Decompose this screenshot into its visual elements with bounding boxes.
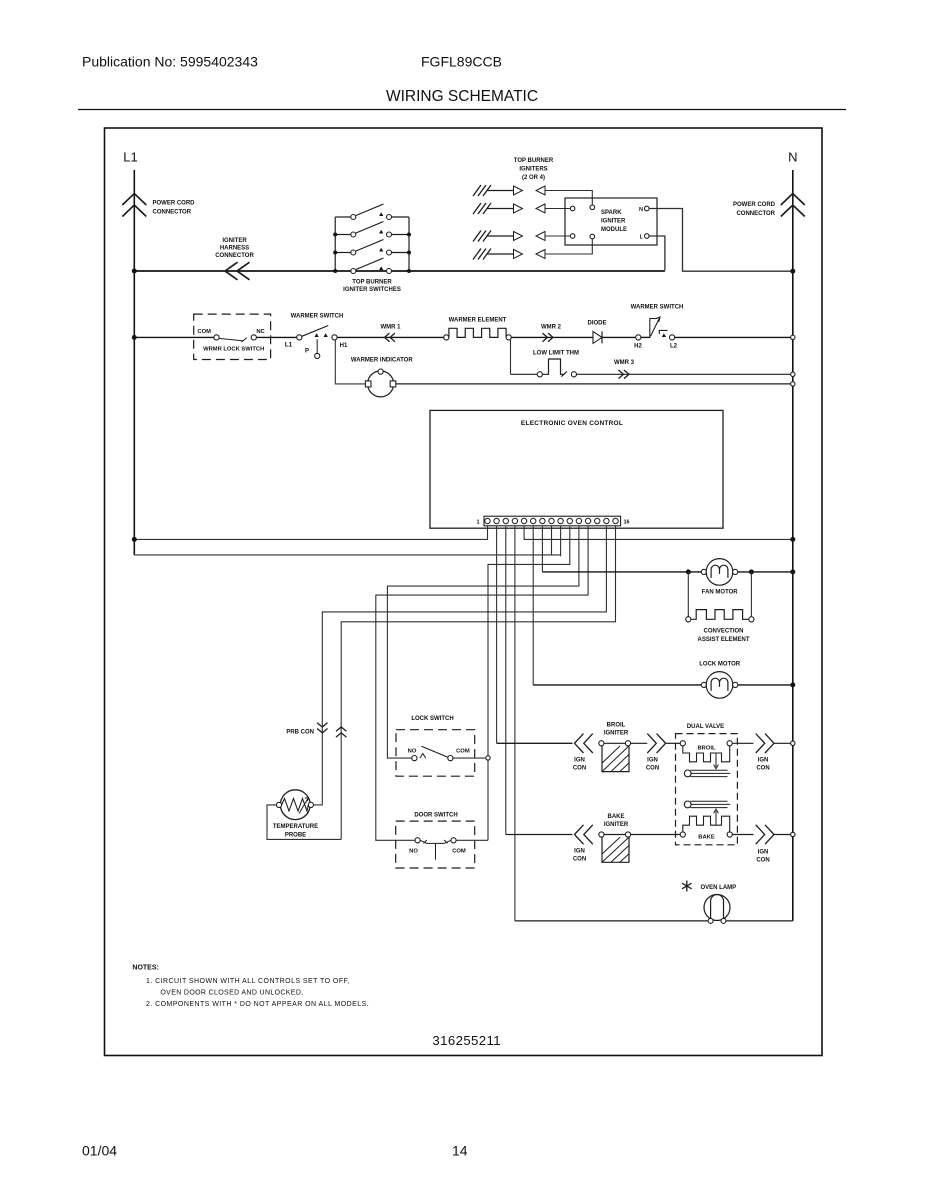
connector WMR 3 chevrons [619, 370, 630, 379]
H2 terminal [636, 335, 641, 340]
svg-text:Publication No: 5995402343: Publication No: 5995402343 [82, 54, 258, 70]
lock switch COM terminal [448, 756, 453, 761]
top burner igniter 3 spark gap arrows [487, 235, 514, 237]
svg-text:IGN: IGN [574, 758, 585, 764]
EOC pin 5 [521, 518, 526, 523]
wire spark module L to top bus [649, 236, 665, 270]
power cord connector (N) chevrons [781, 194, 805, 217]
EOC pin 12 [585, 518, 590, 523]
svg-text:IGNITER: IGNITER [604, 822, 629, 828]
wire drop from warmer element junction [510, 338, 512, 374]
wire igniter row3 to module left pin [545, 235, 570, 237]
svg-text:COM: COM [456, 749, 470, 755]
top burner igniter switches left rail [334, 217, 336, 271]
svg-text:OVEN LAMP: OVEN LAMP [701, 885, 737, 891]
svg-text:1. CIRCUIT SHOWN WITH ALL CON: 1. CIRCUIT SHOWN WITH ALL CONTROLS SET T… [146, 978, 350, 985]
junction dot igniter switch rail [333, 269, 337, 273]
component marker asterisk [682, 881, 692, 892]
warmer lock switch COM terminal [214, 335, 219, 340]
broil row IGN CON chevrons right [756, 734, 774, 753]
svg-text:01/04: 01/04 [82, 1143, 117, 1159]
warmer switch contact triangle P side [315, 333, 319, 337]
svg-text:L: L [640, 235, 644, 241]
junction dot fan row right branch [749, 569, 754, 574]
EOC pin 10 [567, 518, 572, 523]
wire oven lamp to neutral [726, 920, 793, 922]
svg-text:1: 1 [476, 520, 479, 526]
EOC pin 1 [485, 518, 490, 523]
svg-text:WRMR LOCK SWITCH: WRMR LOCK SWITCH [203, 347, 264, 353]
junction dot L1 x pin1 wire [132, 537, 137, 542]
bake row IGN CON chevrons left [575, 825, 593, 844]
wire spark module N to neutral bus [649, 209, 793, 272]
wire igniter row2 to module left pin [545, 208, 570, 210]
wire between bake igniter terminals [604, 834, 625, 836]
spark module pin N [645, 206, 650, 211]
wire fan motor to neutral [738, 571, 793, 573]
dual valve broil solenoid coil [683, 746, 730, 762]
EOC pin 2 [494, 518, 499, 523]
wire warmer row from L1 [134, 336, 214, 338]
bake igniter left terminal [599, 832, 604, 837]
wire EOC pin15 to probe return [341, 526, 615, 840]
broil igniter right terminal [625, 741, 630, 746]
svg-text:N: N [788, 150, 797, 165]
junction dot neutral bus at N feeder [790, 269, 795, 274]
svg-text:HARNESS: HARNESS [220, 246, 249, 252]
spark module pin inner lower [590, 234, 595, 239]
top burner igniter 4 electrode hash [473, 249, 491, 260]
top burner igniter 4 spark gap arrows [487, 253, 514, 255]
broil igniter body (hatched) [602, 746, 629, 772]
broil row IGN CON chevrons left [575, 734, 593, 753]
wire fan motor row [542, 571, 701, 573]
wire EOC pin9 stub [560, 526, 562, 557]
svg-text:WMR 2: WMR 2 [541, 325, 562, 331]
wire low limit row to neutral [577, 373, 791, 375]
wire lock motor row [533, 684, 701, 686]
EOC pin 9 [558, 518, 563, 523]
wire N vertical feeder [792, 170, 794, 921]
junction dot igniter switch rail [333, 251, 337, 255]
svg-text:BROIL: BROIL [697, 746, 715, 752]
wire igniter row1 to module inner pin [545, 191, 592, 205]
dual valve bake solenoid coil [683, 816, 730, 832]
wire L1 bottom to pin9 row [134, 554, 560, 556]
low limit thermostat body [542, 359, 567, 377]
connector WMR 2 chevrons [543, 333, 554, 342]
svg-text:WMR 1: WMR 1 [381, 325, 402, 331]
diode D1 [593, 331, 602, 343]
neutral connector circle at indicator row [791, 382, 795, 386]
svg-text:DOOR SWITCH: DOOR SWITCH [414, 813, 457, 819]
svg-text:BROIL: BROIL [607, 723, 626, 729]
svg-text:ELECTRONIC OVEN CONTROL: ELECTRONIC OVEN CONTROL [521, 420, 623, 427]
svg-text:DUAL VALVE: DUAL VALVE [687, 724, 724, 730]
junction dot igniter switch rail [407, 233, 411, 237]
warmer element right terminal [506, 335, 511, 340]
oven lamp bulb [704, 895, 730, 921]
EOC pin 3 [503, 518, 508, 523]
svg-text:ASSIST ELEMENT: ASSIST ELEMENT [697, 637, 749, 643]
fan motor left terminal [701, 569, 706, 574]
EOC pin 14 [604, 518, 609, 523]
spark module pin L [645, 234, 650, 239]
wire EOC pin7 to fan motor row [541, 526, 543, 572]
wire EOC pin3 to bake igniter row [505, 526, 507, 835]
probe connector chevrons up [336, 727, 346, 737]
top burner igniter 2 electrode hash [473, 203, 491, 214]
junction dot neutral x lock motor row [790, 682, 795, 687]
bake igniter body (hatched) [602, 837, 629, 862]
wire bake valve to neutral chevrons [732, 834, 753, 836]
igniter harness connector chevrons [225, 262, 250, 280]
svg-text:L2: L2 [670, 344, 678, 350]
svg-text:NC: NC [256, 329, 265, 335]
connector circle lock switch COM feed [486, 756, 490, 760]
schematic border frame [105, 128, 823, 1056]
svg-text:NOTES:: NOTES: [132, 965, 158, 972]
svg-text:P: P [305, 349, 309, 355]
warmer lock switch blade [219, 338, 247, 342]
svg-text:NO: NO [408, 749, 417, 755]
junction dot igniter switch rail [333, 233, 337, 237]
wire igniter row4 to module inner pin [545, 239, 592, 254]
junction dot igniter switch rail [407, 269, 411, 273]
spark igniter module box U1 [565, 198, 657, 245]
temperature probe right terminal [308, 802, 313, 807]
svg-text:CON: CON [573, 857, 586, 863]
neutral connector circle bake row [791, 832, 795, 836]
igniter switch row 3 [335, 252, 351, 254]
broil igniter left terminal [599, 741, 604, 746]
svg-text:WARMER SWITCH: WARMER SWITCH [291, 314, 344, 320]
neutral connector circle at low limit row [791, 372, 795, 376]
svg-text:BAKE: BAKE [698, 835, 715, 841]
svg-text:PROBE: PROBE [285, 833, 306, 839]
wire EOC pin8 stub [551, 526, 553, 555]
svg-text:H1: H1 [340, 343, 348, 349]
wire low limit row left [511, 373, 538, 375]
EOC pin 15 [613, 518, 618, 523]
wire EOC pin11 to lock switch NO [387, 526, 579, 758]
dual valve bake actuator arrow [714, 809, 719, 825]
oven lamp left terminal [708, 918, 713, 923]
wire bake row to neutral [774, 834, 791, 836]
door switch NO terminal [415, 838, 420, 843]
svg-text:IGNITER: IGNITER [601, 219, 626, 225]
svg-text:POWER CORD: POWER CORD [153, 201, 196, 207]
oven lamp filament [711, 895, 724, 919]
temperature probe thermistor zigzag [282, 799, 309, 812]
svg-text:N: N [639, 207, 643, 213]
low limit thermostat left terminal [537, 372, 542, 377]
wire top bus from L1 to spark module L [134, 270, 665, 272]
svg-text:POWER CORD: POWER CORD [733, 202, 776, 208]
warmer switch blade with arrow [302, 326, 329, 337]
svg-text:CON: CON [756, 766, 769, 772]
wire EOC pin14 to probe connector [314, 526, 607, 805]
dual valve broil pin right [727, 741, 732, 746]
svg-text:IGNITERS: IGNITERS [519, 167, 547, 173]
convection element right terminal [749, 617, 754, 622]
igniter switch row 2 [335, 234, 351, 236]
svg-text:MODULE: MODULE [601, 227, 627, 233]
wire EOC pin2 to broil igniter row [496, 526, 498, 744]
wire bake igniter to dual valve [631, 834, 681, 836]
wire broil row from pin2 [497, 742, 573, 744]
warmer lock switch NC terminal [251, 335, 256, 340]
wire warmer element to H2 [511, 336, 635, 338]
dual valve bake pin right [727, 832, 732, 837]
svg-text:(2 OR 4): (2 OR 4) [522, 175, 545, 181]
igniter switch row 1 [335, 216, 351, 218]
wire EOC pin4 to oven lamp row [514, 526, 516, 921]
svg-text:CONNECTOR: CONNECTOR [215, 253, 254, 259]
svg-text:CON: CON [573, 766, 586, 772]
wire between broil igniter terminals [604, 742, 625, 744]
wire to dual valve broil pin [666, 742, 681, 744]
svg-text:CON: CON [756, 858, 769, 864]
wire probe left loop [267, 805, 341, 840]
convection element left terminal [686, 617, 691, 622]
EOC pin 8 [549, 518, 554, 523]
svg-text:COM: COM [452, 849, 466, 855]
junction dot fan row left branch [686, 569, 691, 574]
wire lock switch COM to feed [453, 757, 486, 759]
junction dot igniter switch rail [407, 251, 411, 255]
temperature probe left terminal [276, 802, 281, 807]
wire EOC pin12 to door switch NO [376, 526, 588, 841]
svg-text:IGN: IGN [758, 758, 769, 764]
wire bake row from pin3 [506, 834, 573, 836]
top burner igniter 1 electrode hash [473, 185, 491, 196]
top burner igniter 1 spark gap arrows [487, 190, 514, 192]
door switch dashed box [396, 821, 475, 868]
svg-text:IGNITER: IGNITER [604, 731, 629, 737]
svg-text:SPARK: SPARK [601, 210, 622, 216]
junction dot L1 x top bus [132, 269, 137, 274]
svg-text:COM: COM [197, 329, 211, 335]
fan motor M1 [706, 559, 733, 586]
wire H2 to switch pivot [641, 336, 650, 338]
dual valve broil plunger [684, 770, 691, 777]
power cord connector (L1) chevrons [122, 194, 146, 217]
svg-text:16: 16 [624, 520, 630, 526]
EOC pin 6 [531, 518, 536, 523]
neutral connector circle at warmer row [791, 335, 795, 339]
svg-text:PRB CON: PRB CON [286, 730, 314, 736]
svg-text:WARMER SWITCH: WARMER SWITCH [631, 305, 684, 311]
neutral connector circle broil row [791, 741, 795, 745]
svg-text:LOW LIMIT THM: LOW LIMIT THM [533, 351, 579, 357]
wire L1 vertical feeder [133, 170, 135, 555]
svg-text:CONNECTOR: CONNECTOR [736, 211, 775, 217]
EOC pin 7 [540, 518, 545, 523]
svg-text:H2: H2 [634, 344, 642, 350]
lock motor left terminal [701, 682, 706, 687]
svg-text:LOCK SWITCH: LOCK SWITCH [411, 716, 453, 722]
title underline rule [78, 109, 846, 111]
svg-text:316255211: 316255211 [432, 1033, 501, 1048]
lock motor M2 [706, 672, 733, 699]
wire EOC pin6 to lock motor row [532, 526, 534, 685]
lock switch dashed box [396, 730, 475, 777]
broil row IGN CON chevrons mid [647, 734, 665, 753]
svg-text:TEMPERATURE: TEMPERATURE [273, 824, 318, 830]
wire EOC pin10 to door/lock switch common [488, 526, 570, 841]
wire convection branch left [687, 572, 689, 617]
svg-text:TOP BURNER: TOP BURNER [514, 158, 554, 164]
warmer element left terminal [444, 335, 449, 340]
svg-text:BAKE: BAKE [607, 814, 624, 820]
svg-text:L1: L1 [123, 150, 137, 165]
svg-text:14: 14 [452, 1143, 468, 1159]
junction dot neutral x pin5 wire [790, 537, 795, 542]
lock switch blade [422, 746, 448, 757]
svg-text:OVEN DOOR CLOSED AND UNLOCKED.: OVEN DOOR CLOSED AND UNLOCKED. [160, 990, 303, 997]
door switch COM terminal [451, 838, 456, 843]
connector WMR 1 chevrons [385, 333, 396, 342]
svg-text:FAN MOTOR: FAN MOTOR [702, 590, 739, 596]
svg-text:WMR 3: WMR 3 [614, 360, 635, 366]
electronic oven control box [430, 410, 723, 528]
top burner igniter 3 electrode hash [473, 231, 491, 242]
dual valve broil pin left [680, 741, 685, 746]
EOC pin 4 [512, 518, 517, 523]
svg-text:IGN: IGN [647, 758, 658, 764]
warmer switch contact triangle H1 side [324, 333, 328, 337]
wire EOC pin5 to neutral [524, 526, 793, 540]
svg-text:WARMER INDICATOR: WARMER INDICATOR [351, 358, 413, 364]
wire broil valve to neutral chevrons [732, 742, 753, 744]
warmer switch H1 terminal [332, 335, 337, 340]
svg-text:FGFL89CCB: FGFL89CCB [421, 54, 502, 70]
convection assist element resistor [691, 610, 749, 620]
fan motor right terminal [733, 569, 738, 574]
svg-text:CONVECTION: CONVECTION [703, 629, 743, 635]
EOC pin 11 [576, 518, 581, 523]
warmer switch right step and blade [650, 317, 668, 337]
EOC pin 13 [595, 518, 600, 523]
junction dot neutral x fan row [790, 569, 795, 574]
warmer switch P terminal stub [316, 339, 318, 353]
warmer lock switch dashed box [194, 314, 271, 359]
wire broil row to neutral [774, 742, 791, 744]
spark module pin left lower [570, 234, 575, 239]
top burner igniter switches right rail [408, 217, 410, 271]
spark module pin inner upper [590, 205, 595, 210]
EOC pin header strip [484, 516, 621, 526]
svg-text:IGNITER: IGNITER [222, 238, 247, 244]
svg-text:IGN: IGN [758, 850, 769, 856]
top burner igniter 2 spark gap arrows [487, 208, 514, 210]
warmer indicator lamp [368, 371, 394, 397]
wire convection branch right [750, 572, 752, 617]
svg-text:LOCK MOTOR: LOCK MOTOR [699, 662, 741, 668]
dual valve bake plunger [684, 801, 691, 808]
svg-text:CON: CON [646, 766, 659, 772]
wire warmer indicator to neutral [396, 383, 791, 385]
door switch actuator [420, 840, 451, 860]
svg-text:WARMER ELEMENT: WARMER ELEMENT [449, 318, 507, 324]
bake igniter right terminal [625, 832, 630, 837]
warmer switch right contact triangle [662, 333, 666, 337]
dual valve broil actuator arrow [714, 753, 719, 769]
svg-text:2. COMPONENTS WITH * DO NOT: 2. COMPONENTS WITH * DO NOT APPEAR ON AL… [146, 1001, 369, 1008]
bake row IGN CON chevrons right [756, 825, 774, 844]
wire oven lamp row left [515, 920, 708, 922]
warmer element resistor [449, 328, 506, 337]
low limit thermostat right terminal [571, 372, 576, 377]
L2 terminal [670, 335, 675, 340]
wire lock motor to neutral [738, 684, 793, 686]
wire broil igniter to valve chevrons [631, 742, 648, 744]
lock motor right terminal [733, 682, 738, 687]
svg-text:WIRING SCHEMATIC: WIRING SCHEMATIC [386, 88, 538, 105]
warmer switch L1 terminal [297, 335, 302, 340]
wire H1 to warmer element [337, 336, 444, 338]
wire NC to warmer switch [256, 336, 296, 338]
wire H1 drop to warmer indicator [335, 340, 366, 384]
svg-text:L1: L1 [285, 342, 293, 349]
svg-text:CONNECTOR: CONNECTOR [153, 210, 192, 216]
probe connector chevrons down [317, 723, 327, 733]
wire door switch COM to feed [456, 839, 488, 841]
wire EOC pin1 to L1 [134, 526, 487, 540]
igniter switch row 4 [335, 270, 351, 272]
svg-text:NO: NO [409, 849, 418, 855]
svg-text:TOP BURNER: TOP BURNER [352, 280, 392, 286]
svg-text:DIODE: DIODE [587, 321, 606, 327]
lock switch NO terminal [412, 756, 417, 761]
svg-text:IGNITER SWITCHES: IGNITER SWITCHES [343, 287, 401, 293]
lock switch contact triangle [420, 754, 426, 759]
dual valve bake pin left [680, 832, 685, 837]
warmer switch P terminal [315, 353, 320, 358]
junction dot L1 x warmer row [132, 335, 137, 340]
oven lamp right terminal [721, 918, 726, 923]
spark module pin left upper [570, 206, 575, 211]
svg-text:IGN: IGN [574, 849, 585, 855]
dual valve dashed box [676, 734, 738, 845]
temperature probe body [280, 790, 310, 820]
wire L2 to neutral [675, 336, 791, 338]
